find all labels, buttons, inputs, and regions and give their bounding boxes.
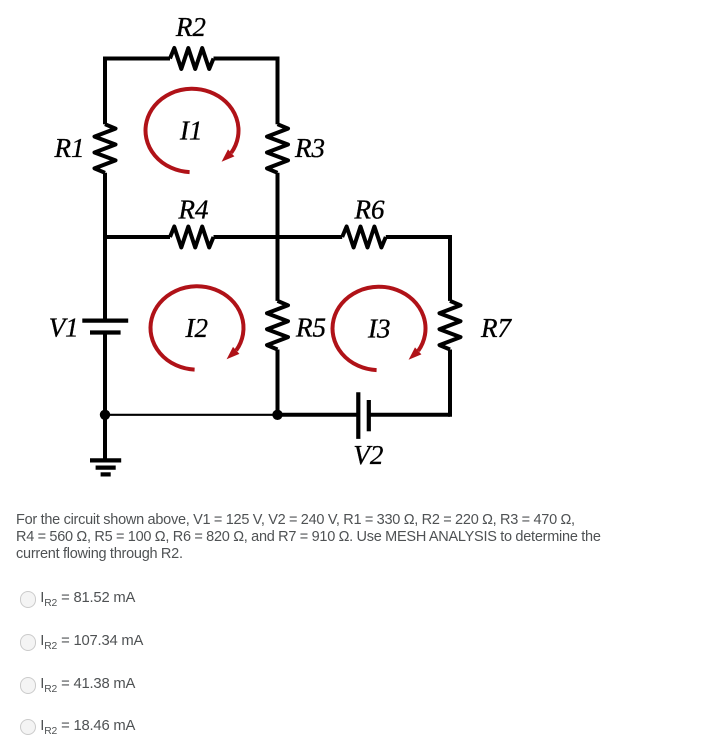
arrowhead I1: [222, 149, 235, 161]
resistor R2: [170, 48, 214, 69]
svg-text:R1: R1: [54, 133, 85, 163]
wire R2-to-top-right: [214, 57, 280, 61]
wire R5 branch upper: [276, 237, 280, 301]
wire right vertical top: [276, 57, 280, 125]
arrowhead I3: [409, 347, 422, 359]
svg-text:V1: V1: [49, 313, 79, 343]
resistor R4: [170, 227, 214, 248]
wire right vertical lower: [448, 350, 452, 417]
mesh current loop I2: [151, 286, 244, 369]
wire V2-to-right-corner: [369, 413, 450, 417]
wire right vertical upper: [448, 235, 452, 301]
arrowhead I2: [227, 347, 240, 359]
resistor R5: [267, 301, 288, 350]
wire R5 branch lower: [276, 350, 280, 415]
wire ground stem: [103, 415, 107, 461]
mesh current loop I1: [146, 89, 239, 172]
battery V1 short plate: [90, 330, 121, 334]
svg-text:R5: R5: [295, 313, 326, 343]
wire R3-to-mid junction: [276, 173, 280, 239]
svg-text:I2: I2: [185, 313, 209, 343]
wire top left-to-R2: [103, 57, 170, 61]
wire left vertical R1-to-mid: [103, 173, 107, 239]
svg-text:R3: R3: [294, 133, 325, 163]
node dot left: [100, 410, 110, 420]
wire mid row left: [105, 235, 170, 239]
node dot right: [272, 410, 282, 420]
wire mid row center: [214, 235, 343, 239]
wire bottom thin: [105, 414, 278, 416]
battery V2 short plate: [367, 400, 371, 431]
svg-text:I3: I3: [367, 313, 391, 343]
battery V1 long plate: [82, 319, 128, 323]
svg-text:R2: R2: [175, 12, 206, 42]
svg-text:I1: I1: [179, 116, 203, 146]
resistor R1: [95, 124, 116, 173]
wire left vertical mid-to-V1: [103, 237, 107, 321]
svg-text:V2: V2: [353, 440, 383, 470]
resistor R3: [267, 124, 288, 173]
wire mid row right to corner: [386, 235, 452, 239]
mesh current loop I3: [333, 287, 426, 370]
svg-text:R7: R7: [480, 313, 512, 343]
resistor R7: [440, 301, 461, 350]
svg-text:R6: R6: [354, 194, 385, 224]
svg-text:R4: R4: [178, 194, 209, 224]
battery V2 long plate: [356, 392, 360, 439]
ground: [90, 458, 121, 462]
wire left vertical top: [103, 57, 107, 125]
wire V1-to-bottom-node: [103, 333, 107, 415]
resistor R6: [342, 227, 386, 248]
wire bottom node-to-V2: [278, 413, 359, 417]
